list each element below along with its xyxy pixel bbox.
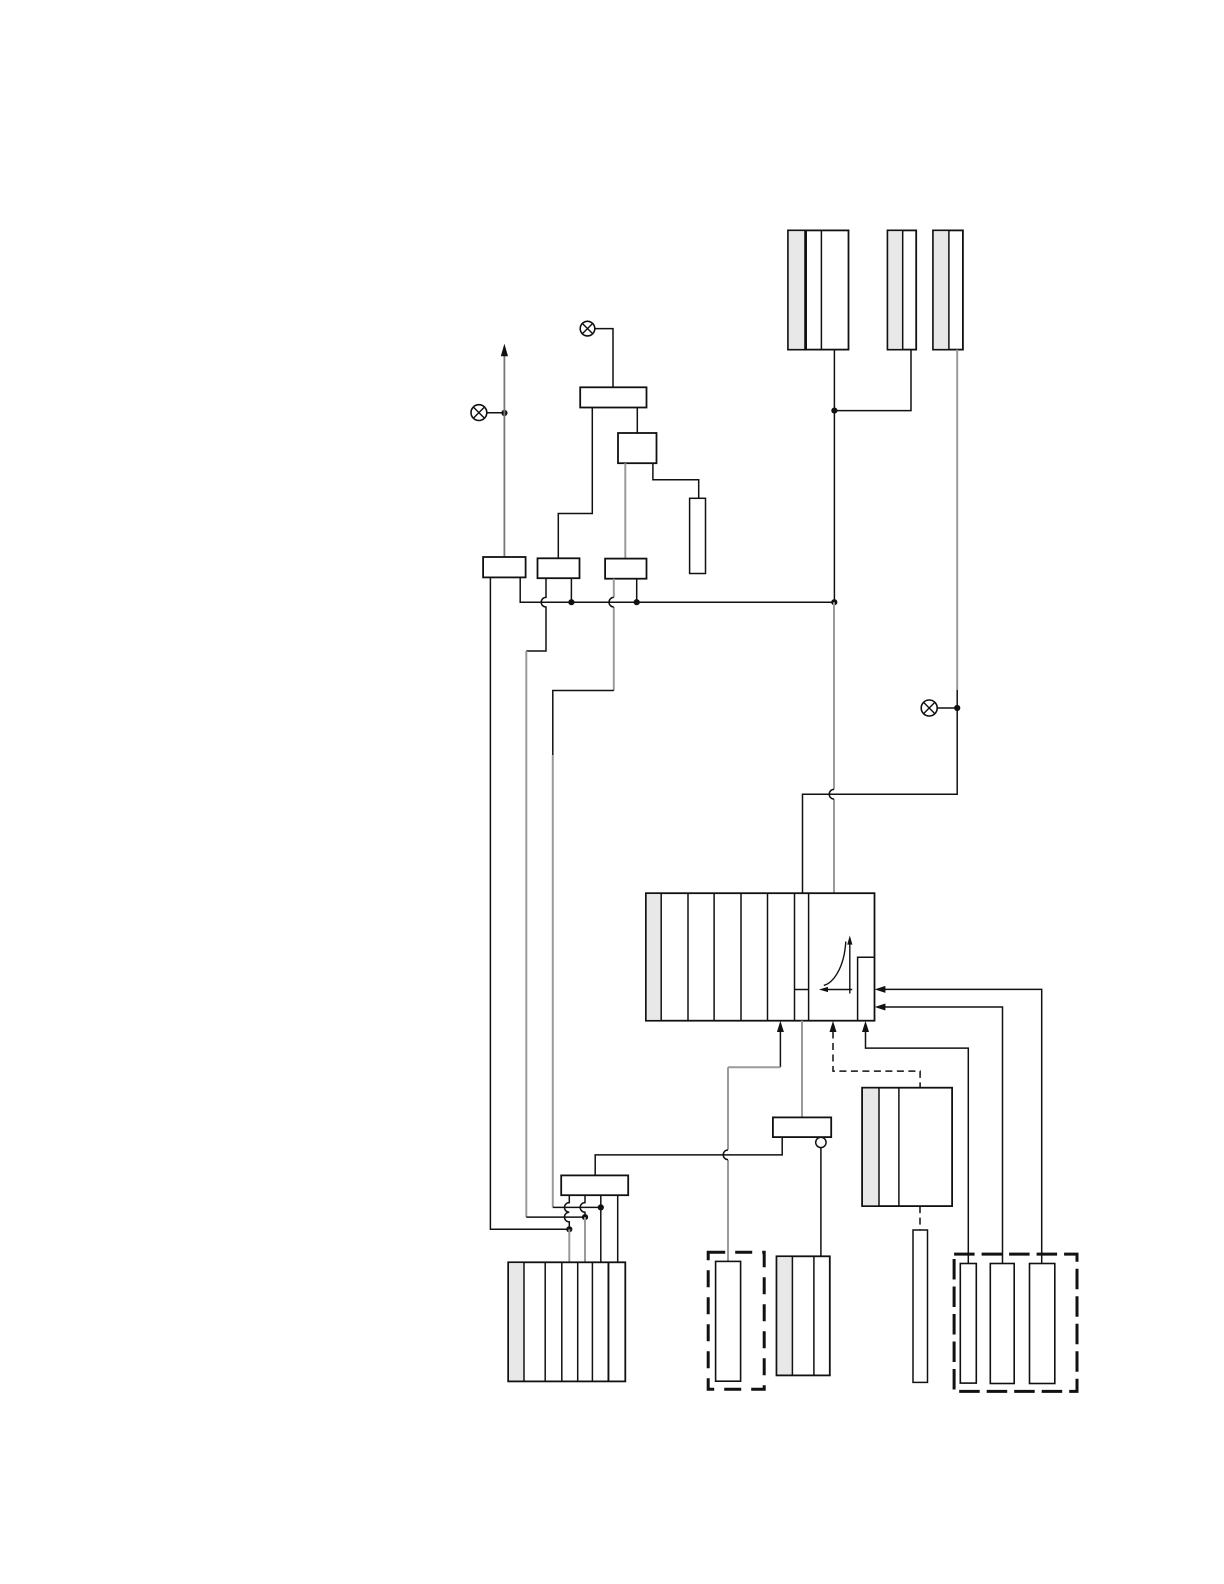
dashed wire ECU pin to sensor block xyxy=(833,1032,920,1090)
wire from contact circle to small striped block xyxy=(820,1148,822,1257)
wire block A right pin to bus xyxy=(520,577,834,602)
wire gray bus end down to ECU top xyxy=(833,602,835,893)
bottom big striped block xyxy=(508,1262,625,1381)
lamp X2 xyxy=(471,405,487,421)
junction dot pin3 xyxy=(598,1204,604,1210)
lamp X1 xyxy=(580,321,595,336)
junction dot bus blockB xyxy=(568,599,574,605)
wire horizontal to pin2 dot xyxy=(526,1216,585,1218)
wire block C right pin to bus dot xyxy=(636,579,638,603)
pin2 gray continuation xyxy=(584,1217,586,1262)
block B xyxy=(538,558,580,578)
wire TR1 pin down to bus end xyxy=(833,350,835,603)
arrowhead up xyxy=(501,344,508,357)
wire TR3 pin black part to ECU top xyxy=(803,690,958,893)
block C xyxy=(605,559,646,579)
hop of block C pin over bus xyxy=(609,597,614,607)
lamp X3 xyxy=(921,700,937,716)
arrowhead up into ECU pin 1 xyxy=(777,1021,784,1032)
wire jog left from block C pin xyxy=(553,691,614,756)
wire gray long drop to pin3 line xyxy=(552,755,554,1207)
dashed box right xyxy=(954,1254,1077,1391)
wire horizontal to pin3 dot xyxy=(553,1206,601,1208)
wire gray jog left and long down to fuse box xyxy=(728,1067,780,1261)
junction dot lamp X3 xyxy=(954,705,960,711)
wire T1 right pin to block U2 xyxy=(636,408,638,434)
wire ECU pin up-arrow 3 to bottom right rect1 xyxy=(866,1031,969,1264)
node dot on arrow line xyxy=(501,410,507,416)
wire block B left pin with hop over bus, jog left xyxy=(526,578,546,651)
wide block pin3 xyxy=(600,1195,602,1262)
arrowhead up into ECU dashed pin xyxy=(830,1021,837,1032)
ECU main block xyxy=(646,893,875,1021)
block U2 xyxy=(618,433,657,463)
wide block pin1 with two hops xyxy=(564,1195,569,1229)
wire block B right pin to bus dot xyxy=(570,578,572,602)
wire block A left pin long down to junction with pin1 line xyxy=(490,577,569,1229)
block A xyxy=(483,557,525,577)
inner fuse rect left xyxy=(716,1261,741,1381)
resistor R1 tall rect xyxy=(690,498,706,573)
block T1 xyxy=(580,387,646,407)
wide block pin2 with hop xyxy=(580,1195,585,1217)
wire lamp X3 to node xyxy=(937,707,957,709)
junction dot pin2 xyxy=(582,1214,588,1220)
inner rect3 xyxy=(1030,1264,1055,1384)
mid striped sensor block xyxy=(862,1088,952,1206)
relay K1 xyxy=(773,1117,831,1137)
wire TR3 pin down gray part xyxy=(956,350,958,690)
hop over relay wire xyxy=(723,1150,728,1160)
narrow tall rect xyxy=(913,1230,928,1382)
wire T1 left pin down-left to block B top xyxy=(558,408,592,559)
arrowhead up into ECU pin 3 xyxy=(862,1021,869,1032)
inner rect1 xyxy=(960,1264,976,1384)
pin1 gray continuation xyxy=(568,1229,570,1262)
wire lamp X1 to block T1 xyxy=(595,329,613,388)
characteristic curve symbol xyxy=(819,936,853,994)
wire ECU pin up-arrow 1 (to lower relay box) xyxy=(779,1031,781,1067)
inner rect2 xyxy=(990,1264,1014,1384)
wire U2 right pin to resistor R1 xyxy=(653,463,699,498)
wire right arrow L1 into ECU from rect3 xyxy=(885,989,1042,1263)
wide block pin4 xyxy=(617,1195,619,1262)
junction dot pin1 xyxy=(566,1226,572,1232)
relay contact circle xyxy=(816,1137,826,1147)
arrow line up from block A xyxy=(503,355,505,557)
junction dot bus blockC xyxy=(634,599,640,605)
connector TR2 xyxy=(888,230,917,349)
arrowhead left into ECU right edge L1 xyxy=(875,986,886,993)
junction dot TR merge xyxy=(831,408,837,414)
wire U2 left pin to block C top (gray) xyxy=(624,463,626,558)
wire block C left pin gray xyxy=(613,579,615,691)
wire gray continuation down xyxy=(525,651,527,1217)
junction dot bus right end xyxy=(831,599,837,605)
small striped block xyxy=(777,1256,830,1375)
connector TR3 xyxy=(933,230,963,349)
dashed box left xyxy=(708,1252,764,1389)
wire relay pin down-left to wide block top xyxy=(595,1137,782,1175)
wide block W1 xyxy=(561,1175,628,1195)
wire TR2 pin to TR1 wire xyxy=(834,350,911,411)
dashed wire sensor block to narrow rect xyxy=(919,1206,921,1230)
wire gray ECU pin to relay K1 xyxy=(801,1021,803,1118)
arrowhead left into ECU right edge L2 xyxy=(875,1004,886,1011)
wire right arrow L2 into ECU from rect2 xyxy=(885,1007,1003,1264)
connector TR1 xyxy=(788,230,849,349)
hop over horizontal at 794 xyxy=(829,789,834,799)
wire lamp X2 to node on arrow line xyxy=(487,412,505,414)
